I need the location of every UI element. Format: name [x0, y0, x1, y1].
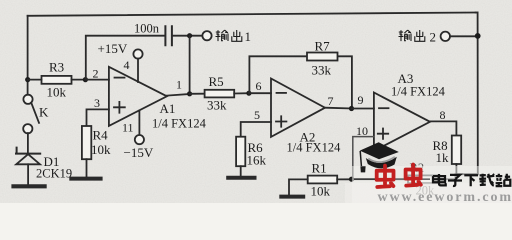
A2 plus sign [276, 116, 286, 126]
watermark text dianzi xiazaizhan [433, 174, 510, 187]
node C (feedback/output junction) [187, 33, 192, 38]
label R4 value [91, 128, 111, 158]
node F (A2 out) [349, 106, 354, 111]
svg-text:1: 1 [176, 78, 182, 92]
terminal +15V [133, 49, 142, 58]
label pin 2 [93, 67, 99, 81]
svg-text:R5: R5 [209, 74, 224, 89]
label -15V [124, 145, 154, 160]
label +15V [98, 41, 128, 56]
label pin 10 [356, 124, 368, 138]
svg-text:10k: 10k [311, 184, 331, 199]
switch K terminal 2 [23, 124, 32, 133]
wire A1 output [167, 94, 190, 96]
node H (output2 junction) [475, 33, 481, 39]
label A3 1/4 FX124 [391, 85, 446, 99]
capacitor C1 100n [165, 26, 172, 45]
label R6 value [247, 140, 267, 168]
label A2 1/4 FX124 [287, 141, 342, 155]
resistor R1 [289, 176, 352, 195]
wire left rail [27, 16, 29, 95]
出 glyph [232, 30, 242, 41]
resistor R3 [28, 76, 85, 84]
switch K terminal 1 [23, 95, 32, 104]
wire pin 3 to R4 [87, 109, 109, 126]
svg-text:4: 4 [124, 58, 130, 72]
label pin 4 [124, 58, 130, 72]
电 glyph [433, 174, 446, 185]
ground under D1 [14, 184, 45, 188]
ground under R6 [228, 176, 254, 180]
svg-text:K: K [39, 105, 49, 120]
svg-text:−15V: −15V [124, 145, 154, 160]
ground under R1 [281, 195, 303, 199]
wire pin 11 [138, 111, 140, 136]
wire switch to diode [27, 133, 29, 153]
label pin 6 [256, 79, 262, 93]
wire R8 bottom to right rail [456, 173, 477, 175]
label A3 [398, 71, 414, 86]
resistor R7 [307, 53, 338, 61]
label R7 value [312, 39, 332, 78]
wire top rail [28, 13, 476, 16]
label pin 3 [94, 96, 100, 110]
输 glyph [216, 30, 229, 41]
wire node G to R2 (visible through haze) [354, 178, 376, 180]
label pin 11 [122, 121, 134, 135]
op-amp A3 [374, 93, 430, 152]
出 glyph [415, 30, 425, 41]
label A2 [300, 130, 316, 145]
wire pin 6 [249, 92, 271, 94]
svg-text:2: 2 [430, 30, 437, 45]
label A1 1/4 FX124 [152, 117, 207, 131]
node E (pin6 junction) [246, 91, 251, 96]
label D1 value [36, 154, 72, 181]
node G (pin10/R1/R2 junction) [349, 177, 354, 182]
node B (pin2 / feedback junction) [83, 77, 88, 82]
resistor R2 [408, 174, 455, 183]
svg-text:R3: R3 [49, 60, 64, 75]
下 glyph [464, 175, 478, 186]
terminal output1 circle [202, 31, 211, 40]
wire node G to R2 [352, 178, 409, 180]
label pin 5 [254, 108, 260, 122]
svg-text:3: 3 [94, 96, 100, 110]
label K [39, 105, 49, 120]
resistor R5 [190, 90, 249, 98]
label R5 value [207, 74, 227, 113]
svg-text:www.eeworm.com: www.eeworm.com [378, 190, 512, 203]
A2 minus sign [277, 92, 287, 94]
op-amp A1 [109, 67, 167, 126]
wire pin 4 [137, 59, 139, 82]
svg-text:1: 1 [245, 29, 252, 44]
svg-text:100n: 100n [134, 22, 160, 36]
wire node C down to A1 output [189, 36, 191, 94]
terminal -15V [135, 135, 144, 144]
label pin 1 [176, 78, 182, 92]
载 glyph [479, 174, 494, 186]
label pin 8 [440, 108, 446, 122]
svg-text:R1: R1 [312, 161, 327, 176]
wire pin 5 to R6 [241, 122, 271, 137]
svg-text:16k: 16k [247, 153, 267, 168]
watermark white haze [345, 166, 512, 203]
svg-text:R4: R4 [93, 128, 109, 143]
子 glyph [448, 175, 462, 186]
resistor R8 [452, 136, 461, 175]
label output 1 (Chinese 输出 1) [216, 29, 252, 44]
wire A2 output [325, 107, 352, 110]
svg-text:R7: R7 [315, 39, 331, 54]
svg-text:11: 11 [122, 121, 134, 135]
wire pin2 [85, 79, 109, 81]
svg-text:A1: A1 [160, 101, 176, 116]
svg-text:2: 2 [93, 67, 99, 81]
站 glyph [496, 174, 511, 186]
ground under R4 [71, 177, 100, 181]
svg-text:1k: 1k [436, 150, 450, 165]
A1 plus sign [114, 102, 125, 113]
digit 2 [430, 30, 437, 45]
label pin 9 [358, 93, 364, 107]
resistor R6 [236, 137, 245, 176]
terminal output2 circle [441, 32, 450, 41]
svg-text:10k: 10k [91, 142, 111, 157]
label R8 value [433, 138, 450, 165]
A1 minus sign [115, 77, 125, 79]
wire right rail [476, 12, 478, 174]
diode D1 [16, 148, 40, 185]
watermark graduation cap logo [360, 142, 399, 172]
svg-text:1/4 FX124: 1/4 FX124 [287, 141, 342, 155]
label A1 [160, 101, 176, 116]
wire output2 to rail [450, 35, 478, 37]
watermark url www.eeworm.com [378, 190, 512, 205]
svg-text:6: 6 [256, 79, 262, 93]
输 glyph [399, 30, 412, 41]
svg-text:33k: 33k [312, 63, 332, 78]
svg-text:1/4 FX124: 1/4 FX124 [391, 85, 446, 99]
watermark chongchong red characters [377, 165, 421, 188]
label R1 value [311, 161, 331, 199]
A3 plus sign [378, 129, 388, 139]
switch K blade [31, 103, 39, 123]
wire cap to output1 [172, 35, 203, 37]
svg-text:2CK19: 2CK19 [36, 167, 72, 181]
op-amp A2 [271, 79, 325, 137]
wire feedback up [86, 36, 165, 80]
resistor R4 [82, 126, 91, 177]
label pin 7 [328, 94, 334, 108]
svg-text:33k: 33k [207, 98, 227, 113]
svg-text:+15V: +15V [98, 41, 128, 56]
wire R7 branch [249, 56, 352, 108]
digit 1 [245, 29, 252, 44]
A3 minus sign [379, 107, 389, 109]
wire pin 10 [353, 137, 374, 180]
svg-text:7: 7 [328, 94, 334, 108]
svg-text:8: 8 [440, 108, 446, 122]
svg-text:10k: 10k [47, 85, 67, 100]
label R3 value [47, 60, 67, 100]
svg-text:9: 9 [358, 93, 364, 107]
label output 2 (Chinese 输出 2) [399, 30, 437, 45]
wire A3 output to R8 [430, 121, 456, 135]
svg-text:1/4 FX124: 1/4 FX124 [152, 117, 207, 131]
label 100n [134, 22, 160, 36]
node A (left rail / R3 junction) [25, 77, 30, 82]
node D (A1 out) [187, 91, 192, 96]
label R2 value [410, 161, 436, 198]
svg-text:5: 5 [254, 108, 260, 122]
wire pin 9 [352, 108, 374, 110]
